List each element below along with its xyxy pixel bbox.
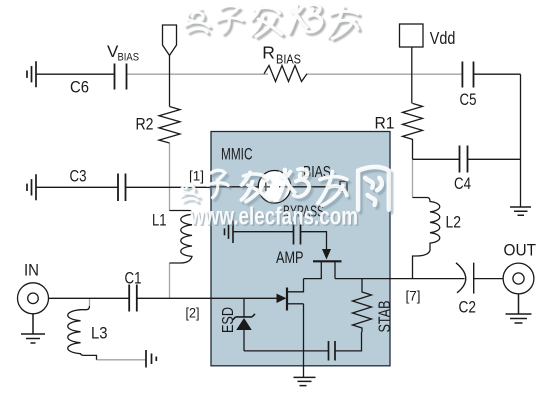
inductor L2 bbox=[413, 198, 440, 279]
svg-text:www.elecfans.com: www.elecfans.com bbox=[189, 203, 358, 231]
wire bottom net zener to cap bbox=[244, 350, 329, 352]
svg-text:R1: R1 bbox=[375, 114, 395, 133]
capacitor bottom stab bbox=[329, 341, 336, 361]
ground right rail bbox=[510, 207, 531, 215]
capacitor C2 bbox=[456, 263, 474, 294]
watermark middle row glyphs bbox=[180, 167, 388, 210]
wire C3 ground to C3 bbox=[36, 186, 118, 188]
wire C2 to OUT jack bbox=[474, 278, 514, 280]
svg-text:C6: C6 bbox=[70, 78, 89, 97]
svg-text:[7]: [7] bbox=[406, 288, 421, 304]
svg-text:MMIC: MMIC bbox=[221, 146, 253, 164]
transistor Q1 cascode AMP FET bbox=[304, 250, 342, 279]
wire bottom cap to STAB bottom bbox=[335, 332, 362, 351]
wire IN jack to C1 bbox=[38, 297, 129, 299]
svg-text:R: R bbox=[262, 43, 275, 63]
BIAS source minus sign bbox=[279, 186, 288, 188]
capacitor bypass bbox=[294, 222, 301, 245]
svg-text:C4: C4 bbox=[454, 174, 471, 193]
wire plug stem bbox=[169, 56, 171, 107]
ground at C6 (rotated) bbox=[27, 61, 36, 87]
Vdd square bbox=[400, 24, 424, 47]
resistor RBIAS bbox=[264, 66, 307, 82]
capacitor C4 bbox=[460, 146, 468, 173]
inductor L1 bbox=[170, 211, 193, 264]
wire bypass cap to corner and down bbox=[301, 232, 327, 250]
svg-text:C2: C2 bbox=[459, 298, 477, 317]
svg-text:BIAS: BIAS bbox=[118, 52, 140, 64]
svg-text:C1: C1 bbox=[125, 269, 142, 288]
wire gray L3 bottom run to ground bbox=[97, 359, 147, 361]
ground at L3 (rotated) bbox=[146, 350, 156, 368]
zener triangle bbox=[236, 318, 252, 330]
wire C6 ground to C6 bbox=[36, 73, 115, 75]
wire gray Vdd node to C5 bbox=[413, 73, 463, 75]
wire bypass ground to cap bbox=[233, 231, 294, 233]
wire BIAS source to box terminal bbox=[291, 186, 340, 188]
wire node1 to BIAS source bbox=[211, 186, 258, 188]
svg-text:Vdd: Vdd bbox=[430, 28, 456, 48]
zener diode ESD bbox=[233, 298, 255, 351]
ground below MMIC bbox=[294, 377, 316, 385]
svg-text:R2: R2 bbox=[136, 115, 154, 134]
ground at bypass cap (rotated) bbox=[225, 221, 234, 244]
wire gray L1 bottom to IN line bbox=[169, 263, 171, 298]
wire C1 to FET gate bbox=[137, 297, 277, 299]
svg-text:C5: C5 bbox=[460, 90, 477, 109]
capacitor C6 bbox=[115, 64, 127, 90]
OUT jack bbox=[503, 263, 534, 294]
wire gray L3 hang stem bbox=[89, 298, 91, 306]
wire gray R1 bottom to L2 bbox=[412, 159, 414, 197]
svg-text:L3: L3 bbox=[91, 324, 108, 343]
wire gray bias rail C6 to RBIAS bbox=[127, 73, 269, 75]
svg-text:BIAS: BIAS bbox=[276, 53, 301, 67]
resistor R2 bbox=[159, 107, 180, 144]
transistor Q1 gate arrowhead bbox=[322, 249, 331, 260]
resistor STAB bbox=[353, 279, 372, 332]
wire gray R2 bottom to node 1 bbox=[169, 143, 171, 187]
svg-text:L2: L2 bbox=[446, 213, 462, 232]
svg-text:AMP: AMP bbox=[276, 249, 304, 267]
wire Vdd stem bbox=[411, 47, 413, 103]
wire C4 line bbox=[413, 158, 521, 160]
capacitor C3 bbox=[118, 174, 126, 202]
wire gray node 1 down to L1 bbox=[169, 188, 171, 212]
watermark middle row shadows bbox=[183, 170, 391, 213]
inductor L3 bbox=[68, 306, 97, 360]
ground under IN bbox=[21, 314, 45, 344]
svg-text:OUT: OUT bbox=[504, 241, 537, 260]
capacitor C5 bbox=[462, 62, 473, 88]
svg-text:C3: C3 bbox=[70, 167, 87, 186]
connector plug top bbox=[163, 25, 177, 56]
BIAS source circle U1 bbox=[258, 171, 291, 204]
svg-text:IN: IN bbox=[24, 261, 39, 280]
svg-text:STAB: STAB bbox=[376, 301, 394, 333]
svg-text:[2]: [2] bbox=[186, 305, 200, 321]
transistor Q2 gate arrowhead bbox=[277, 294, 287, 303]
BIAS source plus sign bbox=[262, 183, 271, 192]
svg-text:L1: L1 bbox=[152, 211, 167, 230]
MMIC block body bbox=[211, 132, 390, 366]
BIAS terminal box bbox=[340, 181, 347, 191]
transistor Q2 main FET bbox=[287, 279, 304, 311]
wire gray RBIAS to Vdd node bbox=[307, 73, 412, 75]
ground under OUT bbox=[506, 294, 532, 323]
IN jack bbox=[18, 283, 49, 314]
svg-text:[1]: [1] bbox=[189, 168, 204, 184]
wire C3 to MMIC node 1 bbox=[126, 186, 212, 188]
resistor R1 bbox=[403, 103, 423, 159]
wire C5 to right rail corner bbox=[474, 73, 521, 75]
watermark top row glyphs bbox=[185, 4, 358, 38]
ground at C3 (rotated) bbox=[27, 174, 36, 200]
capacitor C1 bbox=[129, 285, 137, 312]
watermark top row shadows bbox=[188, 7, 361, 41]
wire MMIC ground stem bbox=[303, 304, 305, 378]
svg-text:ESD: ESD bbox=[220, 307, 237, 333]
wire output line FET to C2 bbox=[335, 278, 465, 280]
right rail down to ground bbox=[520, 74, 522, 207]
